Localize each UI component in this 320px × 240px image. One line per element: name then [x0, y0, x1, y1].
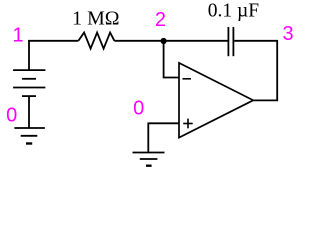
svg-text:1: 1: [13, 25, 24, 47]
wire node 2 to inverting input: [164, 41, 179, 78]
wire node 1 to resistor: [28, 40, 78, 42]
node 2 junction dot: [161, 38, 167, 44]
svg-text:0.1 µF: 0.1 µF: [208, 1, 259, 22]
svg-text:3: 3: [282, 23, 293, 45]
svg-text:0: 0: [133, 97, 144, 119]
capacitor C1: [228, 27, 233, 56]
svg-text:1 MΩ: 1 MΩ: [72, 9, 119, 30]
wire resistor to capacitor: [114, 40, 227, 42]
wire node 1 to battery: [28, 40, 30, 70]
svg-text:2: 2: [155, 9, 166, 31]
op-amp U1: [179, 63, 253, 138]
wire capacitor to output (node 3): [234, 41, 277, 101]
wire non-inverting input to ground: [148, 123, 179, 152]
resistor R1: [78, 33, 114, 49]
ground (battery): [14, 128, 45, 144]
ground (op-amp non-inverting input): [133, 153, 165, 166]
svg-text:0: 0: [6, 105, 17, 127]
wire battery to ground: [28, 96, 30, 128]
battery V1: [13, 70, 45, 96]
